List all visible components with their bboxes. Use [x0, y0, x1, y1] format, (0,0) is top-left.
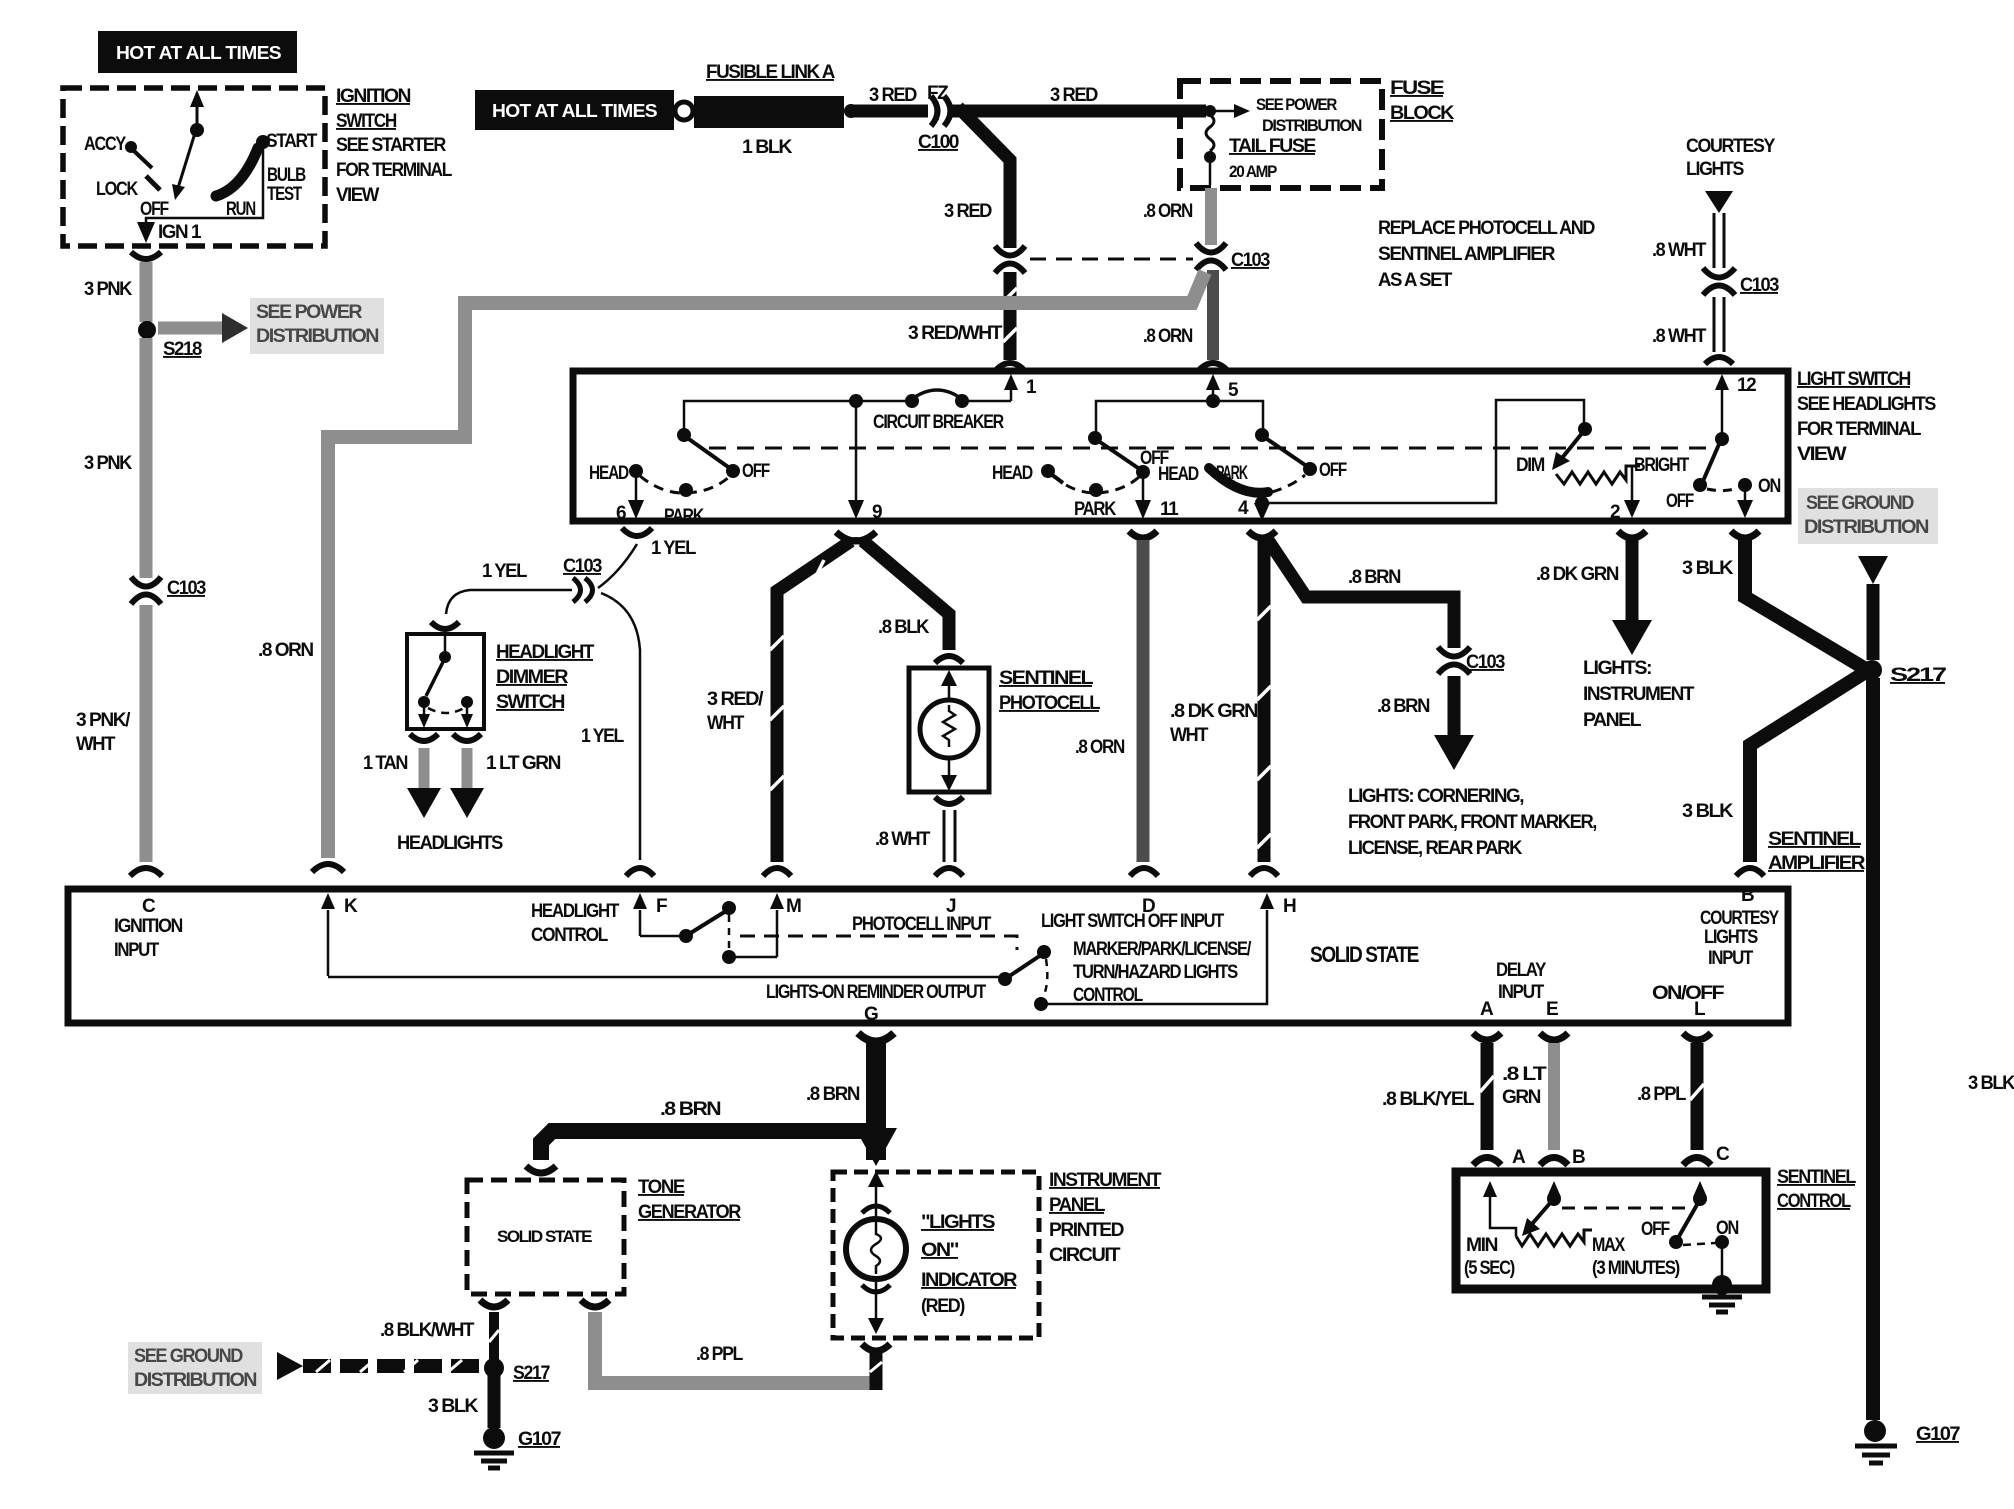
chevron below indicator box: [862, 1344, 890, 1351]
see ground distribution note (gray, right): [1798, 488, 1938, 544]
ground feed arrow down: [1858, 556, 1888, 660]
svg-text:3 RED: 3 RED: [869, 85, 917, 106]
svg-text:HEADLIGHTS: HEADLIGHTS: [397, 833, 503, 854]
svg-text:C: C: [142, 896, 156, 917]
splice S217 (right): [1862, 660, 1946, 686]
svg-text:ON/OFF: ON/OFF: [1652, 983, 1724, 1004]
svg-text:GENERATOR: GENERATOR: [638, 1202, 742, 1223]
svg-text:A: A: [1512, 1147, 1526, 1168]
svg-text:6: 6: [616, 503, 626, 524]
svg-text:HEADLIGHT: HEADLIGHT: [496, 642, 595, 663]
gray arrow to see-power-distribution: [158, 313, 248, 343]
svg-text:A: A: [1480, 999, 1494, 1020]
svg-text:PARK: PARK: [1216, 463, 1248, 484]
fuse block dashed housing: [1180, 81, 1382, 188]
pin 12 arrow: [1715, 374, 1756, 439]
wire 3 PNK (gray) from IGN1 down to S218: [140, 262, 153, 322]
wire .8 BRN branch to tone generator: [541, 1099, 884, 1160]
svg-text:TONE: TONE: [638, 1177, 685, 1198]
svg-text:C: C: [1716, 1144, 1730, 1165]
svg-text:INSTRUMENT: INSTRUMENT: [1049, 1170, 1162, 1191]
svg-text:.8 DK GRN: .8 DK GRN: [1536, 564, 1619, 585]
pin 1 arrow: [1004, 374, 1037, 401]
svg-text:SEE POWER: SEE POWER: [1256, 95, 1337, 114]
svg-text:FUSIBLE LINK A: FUSIBLE LINK A: [706, 62, 836, 83]
svg-text:.8 ORN: .8 ORN: [1075, 737, 1125, 758]
svg-text:SEE GROUND: SEE GROUND: [134, 1346, 243, 1367]
svg-text:ACCY: ACCY: [84, 134, 127, 155]
svg-text:.8 ORN: .8 ORN: [258, 640, 313, 661]
svg-text:LIGHTS: CORNERING,: LIGHTS: CORNERING,: [1348, 786, 1524, 807]
svg-text:2: 2: [1610, 502, 1620, 523]
wire .8 DK GRN pin2 to instrument lights: [1536, 540, 1652, 655]
svg-text:INPUT: INPUT: [1708, 948, 1754, 969]
IGN1 output arrow: [137, 222, 155, 243]
svg-text:.8 PPL: .8 PPL: [696, 1344, 744, 1365]
svg-text:K: K: [344, 896, 358, 917]
terminal F arrow: [633, 893, 667, 936]
connector C103 (brown): [1438, 647, 1505, 674]
dimmer switch contacts: [418, 636, 473, 728]
svg-text:LIGHTS: LIGHTS: [1704, 927, 1758, 948]
headlight dimmer switch housing: [407, 634, 484, 729]
svg-text:LOCK: LOCK: [96, 179, 138, 200]
wire 3 PNK/WHT (gray) C103 down to terminal C: [140, 605, 153, 862]
tone generator dashed housing: [467, 1180, 624, 1294]
wire switch to terminal H: [1041, 910, 1267, 1004]
ignition switch caption: [336, 86, 453, 206]
svg-text:CIRCUIT: CIRCUIT: [1049, 1245, 1121, 1266]
svg-text:PARK: PARK: [664, 506, 704, 527]
chevron above terminal M: [763, 868, 791, 876]
chevron above control B: [1540, 1158, 1568, 1166]
hot-at-all-times label box (middle): [475, 90, 674, 130]
svg-text:.8 WHT: .8 WHT: [1652, 326, 1707, 347]
svg-text:M: M: [786, 896, 801, 917]
wire 1 YEL pin6 to C103: [598, 544, 637, 588]
svg-text:DIMMER: DIMMER: [496, 667, 569, 688]
wire 3 RED fusible link to C100: [851, 105, 928, 118]
lights cornering note: [1348, 786, 1597, 859]
chevron below terminal L: [1683, 1033, 1711, 1040]
connector C103 (yellow): [563, 556, 602, 602]
connector C103 (left): [131, 577, 206, 604]
control C on/off switch: [1641, 1181, 1739, 1280]
svg-text:3 RED: 3 RED: [944, 201, 992, 222]
svg-text:G107: G107: [1916, 1424, 1960, 1445]
wire .8 WHT (double line) photocell to terminal J: [875, 810, 955, 862]
ground G107 (right): [1855, 1420, 1960, 1463]
svg-text:SOLID STATE: SOLID STATE: [497, 1227, 592, 1246]
svg-text:MARKER/PARK/LICENSE/: MARKER/PARK/LICENSE/: [1073, 939, 1252, 960]
svg-text:12: 12: [1737, 375, 1756, 396]
hot-at-all-times label box (left): [98, 31, 297, 73]
svg-text:PARK: PARK: [1074, 499, 1117, 520]
pin 9 arrow: [848, 500, 882, 523]
wire .8 ORN (dark) pin11 to terminal D: [1075, 540, 1143, 862]
chevron below terminal E: [1540, 1033, 1568, 1040]
chevron below terminal G: [858, 1033, 894, 1042]
svg-text:9: 9: [872, 502, 882, 523]
wire .8 ORN (dark hatched) C103 down to pin 5: [1207, 270, 1219, 360]
chevron below ignition box: [131, 252, 161, 259]
svg-text:.8 BRN: .8 BRN: [660, 1099, 721, 1120]
svg-text:1 YEL: 1 YEL: [482, 561, 528, 582]
svg-text:3 BLK: 3 BLK: [1968, 1073, 2014, 1094]
ignition switch contact ACCY: [125, 141, 152, 168]
svg-text:1 BLK: 1 BLK: [742, 137, 793, 158]
svg-text:BLOCK: BLOCK: [1390, 103, 1455, 124]
light switch off input caption: [1041, 911, 1252, 1006]
lights-on reminder output caption: [766, 982, 987, 1025]
ignition switch START contact dot: [256, 135, 270, 149]
ignition switch contact LOCK stub: [146, 176, 160, 190]
chevron below pin 2: [1618, 531, 1646, 538]
wire 3 RED/WHT (hatched) down to light switch pin 1: [1004, 272, 1017, 360]
svg-text:TURN/HAZARD LIGHTS: TURN/HAZARD LIGHTS: [1073, 962, 1238, 983]
svg-text:SEE HEADLIGHTS: SEE HEADLIGHTS: [1797, 394, 1936, 415]
svg-text:C100: C100: [918, 132, 959, 153]
instrument panel dashed housing: [833, 1172, 1039, 1338]
svg-text:3 RED/WHT: 3 RED/WHT: [908, 323, 1003, 344]
svg-text:.8 ORN: .8 ORN: [1143, 201, 1193, 222]
svg-text:.8 WHT: .8 WHT: [875, 829, 931, 850]
wire .8 BRN terminal G down: [806, 1042, 876, 1160]
lights-on indicator lamp: [846, 1171, 906, 1334]
chevron below pin 6: [622, 528, 652, 536]
chevron above pin 12: [1705, 357, 1733, 364]
courtesy lights input caption: [1700, 885, 1779, 969]
chevron X below pin 9: [836, 532, 876, 541]
ignition switch labels: [84, 131, 318, 243]
connector C103 (orange wire): [1196, 243, 1270, 271]
tail fuse element: [1204, 115, 1316, 185]
switch1 HEAD/OFF/PARK: [589, 428, 770, 527]
chevron above terminal C: [130, 868, 162, 876]
wire .8 BRN C103 to lights arrow: [1377, 676, 1474, 770]
connector (3 RED/WHT at C103, dashed tie): [995, 246, 1193, 273]
svg-text:E: E: [1546, 999, 1558, 1020]
svg-text:.8 LT: .8 LT: [1502, 1064, 1547, 1085]
wire .8 BLK pin9 to photocell: [863, 541, 949, 650]
ignition switch U1 dashed housing: [63, 88, 325, 246]
svg-text:FUSE: FUSE: [1390, 78, 1444, 99]
svg-text:HEAD: HEAD: [1158, 464, 1199, 485]
svg-text:CIRCUIT BREAKER: CIRCUIT BREAKER: [873, 412, 1004, 433]
see power distribution arrow (in fuse block): [1210, 95, 1362, 135]
sentinel amplifier caption: [1768, 829, 1866, 874]
wire START down to IGN1: [146, 145, 263, 228]
wire 1 YEL C103 to dimmer switch: [446, 590, 572, 614]
svg-text:LIGHT SWITCH: LIGHT SWITCH: [1797, 369, 1911, 390]
light switch off input switch: [998, 945, 1051, 1011]
rheostat DIM/BRIGHT: [1516, 422, 1690, 500]
headlight control switch: [640, 901, 777, 964]
svg-text:(3 MINUTES): (3 MINUTES): [1592, 1258, 1680, 1279]
svg-text:CONTROL: CONTROL: [531, 925, 609, 946]
fusible link A: [675, 62, 858, 158]
switch3 wiper thick arc: [1158, 428, 1347, 510]
svg-text:PANEL: PANEL: [1583, 710, 1642, 731]
svg-text:HEAD: HEAD: [992, 463, 1033, 484]
svg-text:WHT: WHT: [1170, 725, 1209, 746]
wire HEAD contact down to pin 6: [616, 474, 644, 524]
svg-text:"LIGHTS: "LIGHTS: [921, 1212, 995, 1233]
svg-text:3 PNK: 3 PNK: [84, 279, 133, 300]
svg-text:1 LT GRN: 1 LT GRN: [486, 753, 561, 774]
svg-text:DISTRIBUTION: DISTRIBUTION: [1804, 517, 1929, 538]
wire switch2 down to pin 11: [1135, 475, 1179, 520]
wire .8 PPL (hatched) L to control C: [1637, 1043, 1704, 1150]
control internal ground: [1702, 1275, 1742, 1312]
wire 3 BLK S217 to terminal B: [1682, 673, 1864, 862]
photocell caption: [999, 668, 1101, 714]
svg-text:DISTRIBUTION: DISTRIBUTION: [1262, 116, 1362, 135]
see power distribution note (gray): [250, 298, 384, 354]
svg-text:S217: S217: [513, 1363, 550, 1384]
svg-text:DISTRIBUTION: DISTRIBUTION: [134, 1370, 257, 1391]
svg-text:ON: ON: [1716, 1218, 1739, 1239]
svg-text:LIGHTS: LIGHTS: [1686, 159, 1744, 180]
instrument panel captions: [1049, 1170, 1162, 1266]
svg-text:11: 11: [1160, 499, 1179, 520]
terminal K arrow: [321, 893, 358, 976]
dimmer switch caption: [496, 642, 595, 713]
svg-text:C103: C103: [563, 556, 602, 577]
svg-text:HEAD: HEAD: [589, 463, 629, 484]
svg-text:INPUT: INPUT: [114, 940, 160, 961]
light switch caption: [1797, 369, 1936, 465]
svg-text:H: H: [1283, 896, 1296, 917]
control B wiper: [1522, 1181, 1561, 1236]
svg-text:BRIGHT: BRIGHT: [1634, 455, 1690, 476]
chevron above terminal H: [1250, 868, 1278, 876]
photocell input dashed link: [740, 936, 1017, 950]
wire pin4 arrow: [1238, 498, 1270, 521]
chevron below terminal A: [1473, 1033, 1501, 1040]
wire switch3 to rheostat branch: [1262, 400, 1584, 503]
delay rheostat: [1464, 1230, 1680, 1279]
svg-text:DELAY: DELAY: [1496, 960, 1547, 981]
chevron above control C: [1683, 1158, 1711, 1166]
svg-text:(RED): (RED): [921, 1296, 965, 1317]
svg-text:OFF: OFF: [1319, 460, 1347, 481]
ignition switch rotor arrow up: [172, 90, 204, 200]
see ground distribution note (gray, left): [128, 1342, 262, 1394]
terminal M arrow: [770, 893, 801, 957]
svg-text:.8 BRN: .8 BRN: [1348, 567, 1401, 588]
delay input caption: [1480, 960, 1558, 1020]
lights on indicator captions: [921, 1212, 1018, 1317]
pin 5 arrow: [1206, 374, 1239, 401]
sentinel photocell housing: [909, 668, 989, 792]
wire 3 BLK ON pin to S217: [1682, 540, 1864, 668]
wire .8 PPL tone generator to indicator: [595, 1312, 882, 1390]
photocell element: [920, 670, 978, 791]
internal bus wire section1: [684, 401, 905, 435]
mech linkage dashed: [709, 447, 1716, 450]
splice S218: [138, 321, 156, 339]
svg-text:SENTINEL: SENTINEL: [999, 668, 1094, 689]
svg-text:TAIL FUSE: TAIL FUSE: [1229, 136, 1316, 157]
lights instrument panel note: [1583, 658, 1695, 731]
svg-text:MIN: MIN: [1466, 1235, 1498, 1256]
svg-text:SEE STARTER: SEE STARTER: [336, 135, 447, 156]
wire .8 BRN branch to C103: [1268, 540, 1454, 648]
svg-text:FOR TERMINAL: FOR TERMINAL: [1797, 419, 1922, 440]
terminal J label: [852, 896, 992, 935]
wire 3 RED C100 to fuse block: [952, 105, 1206, 118]
svg-text:3 PNK/: 3 PNK/: [76, 710, 131, 731]
svg-text:3 RED/: 3 RED/: [707, 689, 764, 710]
pin 2 arrow: [1610, 500, 1640, 523]
svg-text:SEE GROUND: SEE GROUND: [1806, 493, 1914, 514]
svg-text:1 TAN: 1 TAN: [363, 753, 408, 774]
svg-text:TEST: TEST: [267, 184, 302, 205]
svg-text:PHOTOCELL: PHOTOCELL: [999, 693, 1101, 714]
sentinel control housing: [1456, 1172, 1766, 1289]
svg-text:MAX: MAX: [1592, 1235, 1625, 1256]
terminal C label: [114, 896, 183, 961]
splice S217 (left): [484, 1358, 550, 1384]
svg-text:C103: C103: [1231, 250, 1270, 271]
ignition switch bulb-test arc (RUN to START): [216, 148, 258, 196]
wire breaker junction down to pin 9: [855, 401, 858, 504]
chevron above pin 5: [1199, 363, 1227, 370]
svg-text:4: 4: [1238, 498, 1249, 519]
chevron above dimmer switch: [431, 622, 459, 629]
svg-text:PHOTOCELL INPUT: PHOTOCELL INPUT: [852, 914, 992, 935]
circuit breaker: [849, 390, 1011, 433]
svg-text:3 BLK: 3 BLK: [1682, 801, 1734, 822]
wire .8 ORN (gray) tail fuse to C103: [1205, 188, 1217, 245]
chevrons below dimmer switch: [410, 734, 438, 741]
wire .8 LT GRN (gray) E to control B: [1502, 1043, 1554, 1150]
wire 3 BLK S217 to G107: [428, 1374, 494, 1428]
svg-text:GRN: GRN: [1502, 1087, 1541, 1108]
svg-text:INDICATOR: INDICATOR: [921, 1270, 1018, 1291]
svg-text:.8 BLK/WHT: .8 BLK/WHT: [380, 1320, 475, 1341]
internal bus wire section2: [1096, 401, 1263, 438]
svg-text:PRINTED: PRINTED: [1049, 1220, 1124, 1241]
on/off caption: [1652, 983, 1724, 1020]
svg-text:3 RED: 3 RED: [1050, 85, 1098, 106]
wire .8 BLK/YEL (hatched) A to sentinel control A: [1382, 1043, 1494, 1150]
svg-text:SENTINEL: SENTINEL: [1768, 829, 1862, 850]
svg-text:1 YEL: 1 YEL: [651, 538, 697, 559]
svg-text:WHT: WHT: [707, 713, 745, 734]
wire 3 BLK S217 down right edge to G107: [1873, 678, 2014, 1420]
light switch housing: [573, 371, 1788, 521]
control A input arrow to rheostat: [1483, 1181, 1516, 1236]
svg-text:LIGHTS-ON REMINDER OUTPUT: LIGHTS-ON REMINDER OUTPUT: [766, 982, 987, 1003]
chevron above terminal F: [626, 868, 654, 876]
chevrons below tone generator: [480, 1300, 508, 1307]
chevron above terminal D: [1130, 868, 1158, 876]
switch2 HEAD/OFF/PARK: [992, 431, 1169, 520]
svg-text:LIGHT SWITCH OFF INPUT: LIGHT SWITCH OFF INPUT: [1041, 911, 1225, 932]
svg-text:SWITCH: SWITCH: [496, 692, 565, 713]
chevron above pin 1: [996, 363, 1024, 370]
ground feed arrow (hatched) to S217: [277, 1352, 482, 1380]
wire 1 LT GRN (gray) to headlights: [450, 748, 561, 818]
svg-text:OFF: OFF: [1641, 1219, 1670, 1240]
svg-text:5: 5: [1228, 380, 1239, 401]
wire .8 WHT (double line) C103 down to pin 12: [1652, 297, 1724, 352]
svg-text:HOT AT ALL TIMES: HOT AT ALL TIMES: [492, 100, 657, 121]
svg-text:3 BLK: 3 BLK: [1682, 558, 1734, 579]
svg-text:C103: C103: [1466, 652, 1505, 673]
svg-text:.8 ORN: .8 ORN: [1143, 326, 1193, 347]
svg-text:DISTRIBUTION: DISTRIBUTION: [256, 326, 379, 347]
svg-text:HEADLIGHT: HEADLIGHT: [531, 901, 620, 922]
svg-text:20 AMP: 20 AMP: [1229, 162, 1277, 181]
svg-text:REPLACE PHOTOCELL AND: REPLACE PHOTOCELL AND: [1378, 218, 1595, 239]
chevron above photocell: [935, 656, 963, 663]
svg-text:WHT: WHT: [76, 734, 116, 755]
svg-text:.8 BLK/YEL: .8 BLK/YEL: [1382, 1089, 1475, 1110]
control linkage dashed: [1562, 1207, 1692, 1210]
svg-text:.8 BRN: .8 BRN: [806, 1084, 860, 1105]
chevron above control A: [1473, 1158, 1501, 1166]
svg-text:.8 PPL: .8 PPL: [1637, 1084, 1687, 1105]
svg-text:INSTRUMENT: INSTRUMENT: [1583, 684, 1695, 705]
wire 1 YEL C103 to terminal F: [601, 593, 640, 860]
svg-text:3 BLK: 3 BLK: [428, 1396, 479, 1417]
svg-text:COURTESY: COURTESY: [1700, 908, 1779, 929]
svg-text:.8 BRN: .8 BRN: [1377, 696, 1430, 717]
svg-text:S218: S218: [163, 339, 202, 360]
svg-text:VIEW: VIEW: [336, 185, 379, 206]
svg-text:B: B: [1741, 885, 1754, 906]
chevron above tone generator: [526, 1166, 556, 1173]
svg-text:IGNITION: IGNITION: [336, 86, 411, 107]
svg-text:FOR TERMINAL: FOR TERMINAL: [336, 160, 453, 181]
connector C103 (courtesy): [1703, 268, 1779, 296]
courtesy lights arrow down: [1705, 191, 1733, 213]
svg-text:VIEW: VIEW: [1797, 444, 1847, 465]
svg-text:OFF: OFF: [1666, 491, 1694, 512]
svg-text:.8 DK GRN/: .8 DK GRN/: [1170, 701, 1263, 722]
note replace photocell: [1378, 218, 1595, 291]
svg-text:AMPLIFIER: AMPLIFIER: [1768, 853, 1866, 874]
switch4 OFF/ON (12 feed): [1666, 432, 1781, 518]
wire 3 PNK (gray) S218 down to C103: [140, 338, 153, 578]
chevron above terminal K: [312, 864, 344, 872]
svg-text:S217: S217: [1890, 665, 1946, 686]
wire 1 TAN (gray) to headlights: [363, 748, 441, 818]
connector C100: [918, 96, 959, 153]
sentinel control caption: [1777, 1167, 1857, 1212]
bus node at pin 5: [1206, 394, 1220, 408]
svg-text:FRONT PARK, FRONT MARKER,: FRONT PARK, FRONT MARKER,: [1348, 812, 1597, 833]
svg-text:PANEL: PANEL: [1049, 1195, 1106, 1216]
wire .8 DK GRN/WHT (hatched) pin4 to terminal H: [1170, 540, 1271, 862]
svg-text:SEE POWER: SEE POWER: [256, 302, 363, 323]
svg-text:ON": ON": [921, 1240, 958, 1261]
svg-text:G107: G107: [518, 1429, 561, 1450]
svg-text:SOLID STATE: SOLID STATE: [1310, 942, 1419, 967]
svg-text:START: START: [266, 131, 318, 152]
svg-text:B: B: [1572, 1147, 1585, 1168]
svg-text:SENTINEL AMPLIFIER: SENTINEL AMPLIFIER: [1378, 244, 1556, 265]
svg-text:ON: ON: [1758, 476, 1781, 497]
wire .8 WHT (double line) down to C103: [1652, 213, 1724, 268]
wire .8 ORN gray feed to amplifier K (long band): [258, 272, 1205, 858]
sentinel amplifier housing (solid state): [68, 889, 1788, 1023]
chevron above terminal B: [1736, 868, 1764, 876]
svg-text:.8 WHT: .8 WHT: [1652, 240, 1707, 261]
